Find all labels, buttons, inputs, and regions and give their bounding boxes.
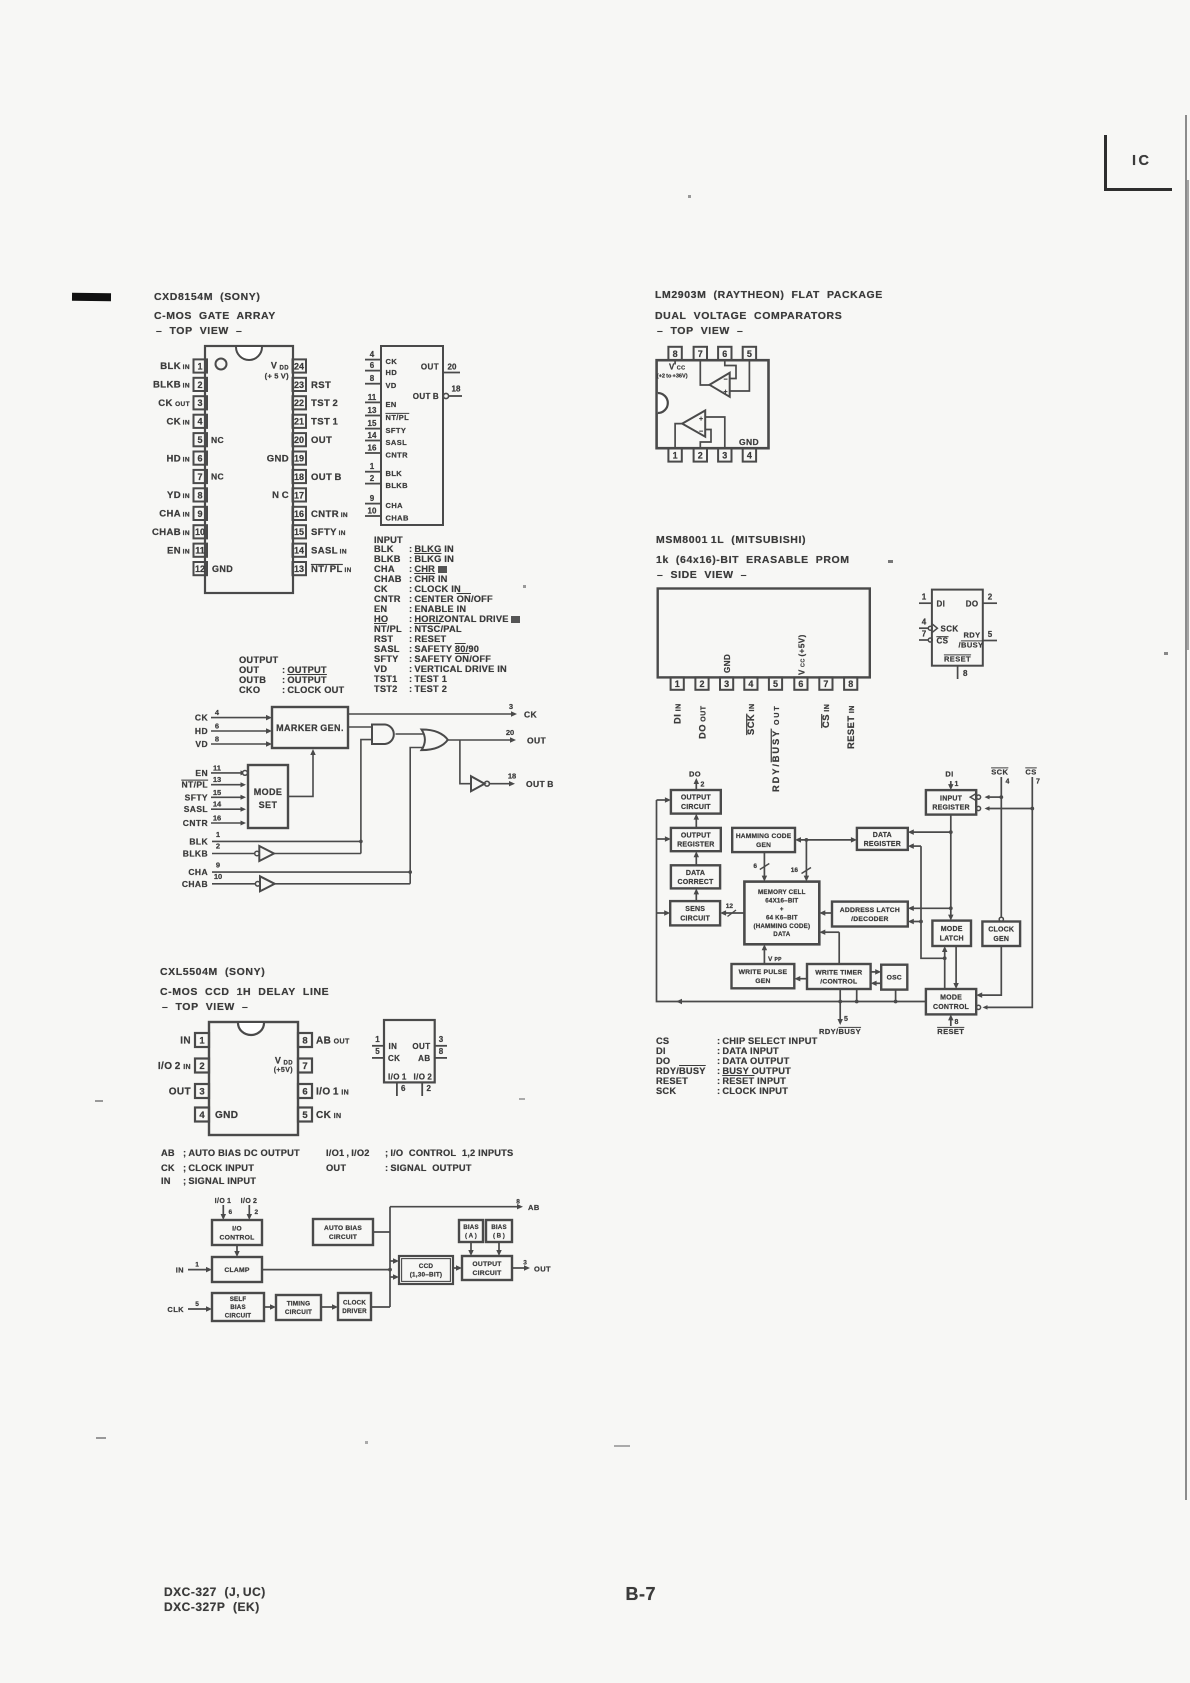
- svg-text:6: 6: [370, 361, 375, 370]
- svg-text:CLOCK: CLOCK: [988, 927, 1014, 934]
- svg-text:13: 13: [294, 564, 304, 574]
- svg-text:OUT: OUT: [311, 435, 332, 446]
- svg-text:EN: EN: [195, 768, 208, 778]
- svg-text:BLKB: BLKB: [183, 849, 208, 859]
- svg-text:4: 4: [922, 618, 927, 627]
- svg-text:SET: SET: [259, 800, 278, 810]
- svg-text:CCD: CCD: [419, 1263, 434, 1270]
- svg-text:(+5V): (+5V): [274, 1067, 293, 1074]
- svg-text:(+2 to +36V): (+2 to +36V): [657, 374, 688, 380]
- svg-text:CNTR: CNTR: [183, 818, 208, 828]
- svg-text:CHA: CHA: [386, 501, 404, 510]
- svg-text:BIAS: BIAS: [491, 1224, 507, 1231]
- svg-text:10: 10: [368, 507, 377, 516]
- svg-text:( A ): ( A ): [465, 1232, 477, 1239]
- svg-text:WRITE PULSE: WRITE PULSE: [739, 969, 788, 976]
- svg-text:CHAB: CHAB: [386, 514, 409, 523]
- svg-text:4: 4: [197, 417, 202, 427]
- svg-text:REGISTER: REGISTER: [677, 842, 714, 849]
- svg-text:/BUSY: /BUSY: [959, 641, 984, 650]
- svg-text:REGISTER: REGISTER: [864, 841, 901, 848]
- svg-text:CIRCUIT: CIRCUIT: [680, 915, 710, 922]
- svg-text:GND: GND: [723, 654, 732, 673]
- svg-text:OUT: OUT: [169, 1087, 191, 1098]
- svg-text:18: 18: [294, 472, 304, 482]
- svg-text:4: 4: [215, 708, 220, 717]
- svg-text:OUTPUT: OUTPUT: [472, 1261, 502, 1268]
- svg-text:SCK: SCK: [991, 768, 1008, 777]
- svg-text:SFTY IN: SFTY IN: [311, 527, 346, 538]
- svg-text:BLKB IN: BLKB IN: [153, 380, 190, 391]
- svg-text:CK: CK: [388, 1054, 400, 1063]
- svg-text:VD: VD: [386, 381, 397, 390]
- svg-text:CLAMP: CLAMP: [224, 1267, 249, 1274]
- svg-text:DO: DO: [966, 599, 979, 608]
- svg-text:1: 1: [675, 679, 680, 689]
- svg-text:(HAMMING CODE): (HAMMING CODE): [753, 923, 810, 930]
- svg-text:4: 4: [199, 1110, 205, 1121]
- svg-text:BLK: BLK: [386, 469, 403, 478]
- svg-text:CIRCUIT: CIRCUIT: [225, 1313, 252, 1320]
- svg-text:V DD: V DD: [275, 1056, 293, 1067]
- svg-text:I/O 2 IN: I/O 2 IN: [158, 1061, 191, 1072]
- svg-text:DATA: DATA: [686, 870, 705, 877]
- svg-text:7: 7: [1036, 779, 1040, 786]
- svg-text:I/O 2: I/O 2: [414, 1073, 433, 1082]
- svg-text:RDY: RDY: [963, 631, 980, 640]
- svg-text:5: 5: [195, 1301, 199, 1308]
- svg-text:2: 2: [699, 679, 704, 689]
- svg-text:CLOCK: CLOCK: [343, 1300, 366, 1307]
- svg-text:2: 2: [701, 782, 705, 789]
- svg-text:+: +: [723, 389, 727, 396]
- svg-text:3: 3: [523, 1260, 527, 1267]
- svg-text:BLK: BLK: [189, 836, 208, 846]
- svg-text:CIRCUIT: CIRCUIT: [473, 1270, 503, 1277]
- svg-text:8: 8: [215, 735, 219, 744]
- svg-text:NC: NC: [211, 472, 224, 482]
- svg-text:BLK IN: BLK IN: [160, 361, 190, 372]
- svg-text:2: 2: [370, 474, 375, 483]
- svg-text:AB OUT: AB OUT: [316, 1036, 350, 1047]
- svg-text:2: 2: [255, 1209, 259, 1216]
- svg-text:1: 1: [922, 593, 927, 602]
- svg-text:8: 8: [197, 490, 202, 500]
- svg-text:AB: AB: [528, 1203, 540, 1212]
- svg-text:NT/ PL IN: NT/ PL IN: [311, 564, 352, 575]
- svg-text:IN: IN: [389, 1042, 398, 1051]
- svg-text:V PP: V PP: [768, 956, 782, 963]
- svg-text:DATA: DATA: [773, 931, 790, 938]
- svg-text:MODE: MODE: [941, 926, 963, 933]
- svg-text:7: 7: [823, 679, 828, 689]
- svg-text:DATA: DATA: [873, 832, 892, 839]
- svg-text:DO: DO: [689, 770, 701, 779]
- svg-text:CHAB IN: CHAB IN: [152, 527, 190, 538]
- svg-text:OUT B: OUT B: [413, 392, 439, 401]
- svg-text:CK: CK: [524, 710, 538, 720]
- svg-text:/CONTROL: /CONTROL: [820, 978, 857, 985]
- svg-text:22: 22: [294, 398, 304, 408]
- svg-text:6: 6: [753, 863, 757, 870]
- svg-text:64 K6–BIT: 64 K6–BIT: [766, 914, 798, 921]
- svg-text:8: 8: [439, 1047, 444, 1056]
- svg-text:MODE: MODE: [940, 995, 962, 1002]
- svg-text:CS: CS: [937, 636, 949, 645]
- svg-text:10: 10: [195, 527, 205, 537]
- svg-text:OUT B: OUT B: [311, 472, 342, 483]
- svg-text:YD IN: YD IN: [167, 490, 190, 501]
- svg-text:7: 7: [922, 629, 927, 638]
- svg-text:6: 6: [197, 454, 202, 464]
- svg-text:2: 2: [216, 842, 220, 851]
- svg-text:17: 17: [294, 490, 304, 500]
- svg-text:14: 14: [368, 431, 377, 440]
- svg-text:TIMING: TIMING: [287, 1301, 311, 1308]
- svg-text:6: 6: [722, 349, 727, 359]
- svg-text:SASL: SASL: [184, 804, 208, 814]
- svg-text:EN IN: EN IN: [167, 545, 190, 556]
- svg-text:14: 14: [294, 546, 304, 556]
- svg-text:8: 8: [516, 1199, 520, 1206]
- svg-text:INPUT: INPUT: [940, 795, 963, 802]
- svg-text:CHA: CHA: [188, 867, 208, 877]
- svg-text:DI: DI: [937, 599, 946, 608]
- svg-text:24: 24: [294, 361, 304, 371]
- svg-text:GND: GND: [215, 1110, 238, 1121]
- svg-text:RESET: RESET: [937, 1027, 964, 1036]
- svg-text:6: 6: [229, 1209, 233, 1216]
- svg-text:5: 5: [844, 1016, 848, 1023]
- svg-text:REGISTER: REGISTER: [932, 804, 969, 811]
- svg-text:1: 1: [197, 361, 202, 371]
- svg-text:+: +: [699, 416, 703, 423]
- svg-text:CK IN: CK IN: [166, 416, 190, 427]
- svg-text:CK: CK: [195, 713, 209, 723]
- svg-text:DO OUT: DO OUT: [697, 705, 707, 739]
- svg-text:AB: AB: [418, 1054, 430, 1063]
- svg-text:4: 4: [1006, 779, 1010, 786]
- svg-text:10: 10: [214, 872, 222, 881]
- svg-text:HD: HD: [195, 726, 208, 736]
- svg-text:18: 18: [508, 772, 516, 781]
- svg-text:9: 9: [216, 861, 220, 870]
- svg-text:CS IN: CS IN: [821, 704, 831, 728]
- svg-text:BIAS: BIAS: [463, 1224, 479, 1231]
- svg-text:18: 18: [452, 385, 461, 394]
- svg-text:CONTROL: CONTROL: [933, 1004, 970, 1011]
- svg-text:13: 13: [368, 406, 377, 415]
- svg-text:1: 1: [195, 1262, 199, 1269]
- svg-text:RDY/BUSY: RDY/BUSY: [819, 1027, 861, 1036]
- svg-text:V DD: V DD: [271, 360, 289, 371]
- svg-text:3: 3: [199, 1087, 204, 1098]
- svg-text:OUT: OUT: [527, 736, 547, 746]
- svg-text:OSC: OSC: [887, 975, 902, 982]
- svg-text:WRITE TIMER: WRITE TIMER: [815, 969, 862, 976]
- svg-text:23: 23: [294, 380, 304, 390]
- svg-text:CORRECT: CORRECT: [677, 879, 714, 886]
- svg-text:5: 5: [197, 435, 202, 445]
- svg-text:CK IN: CK IN: [316, 1110, 341, 1121]
- svg-text:NT/PL: NT/PL: [181, 780, 208, 790]
- svg-text:CIRCUIT: CIRCUIT: [681, 804, 711, 811]
- svg-text:20: 20: [294, 435, 304, 445]
- svg-text:I/O 2: I/O 2: [241, 1198, 258, 1205]
- svg-text:1: 1: [673, 451, 678, 461]
- svg-text:HAMMING CODE: HAMMING CODE: [736, 833, 792, 840]
- svg-text:BLKB: BLKB: [386, 481, 409, 490]
- svg-text:OUT B: OUT B: [526, 779, 554, 789]
- svg-text:7: 7: [698, 349, 703, 359]
- svg-text:2: 2: [698, 451, 703, 461]
- svg-text:15: 15: [368, 419, 377, 428]
- svg-text:CONTROL: CONTROL: [219, 1234, 254, 1241]
- svg-text:8: 8: [963, 669, 968, 678]
- svg-text:CK: CK: [386, 357, 398, 366]
- svg-text:5: 5: [375, 1047, 380, 1056]
- svg-text:19: 19: [294, 454, 304, 464]
- svg-text:5: 5: [988, 630, 993, 639]
- svg-text:SCK: SCK: [941, 624, 959, 633]
- svg-text:RST: RST: [311, 380, 331, 391]
- svg-text:7: 7: [302, 1061, 307, 1072]
- svg-text:11: 11: [195, 546, 205, 556]
- svg-text:TST 1: TST 1: [311, 417, 338, 428]
- svg-text:3: 3: [509, 702, 513, 711]
- svg-text:6: 6: [215, 722, 219, 731]
- svg-text:EN: EN: [386, 400, 397, 409]
- svg-text:20: 20: [506, 728, 514, 737]
- svg-text:ADDRESS LATCH: ADDRESS LATCH: [840, 907, 900, 914]
- svg-text:5: 5: [773, 679, 778, 689]
- svg-text:CIRCUIT: CIRCUIT: [285, 1309, 312, 1316]
- svg-text:3: 3: [724, 679, 729, 689]
- svg-text:SFTY: SFTY: [185, 792, 208, 802]
- svg-text:(+ 5 V): (+ 5 V): [265, 371, 289, 380]
- svg-text:I/O 1: I/O 1: [388, 1073, 407, 1082]
- svg-text:SFTY: SFTY: [386, 426, 407, 435]
- svg-text:LATCH: LATCH: [940, 935, 964, 942]
- svg-text:15: 15: [294, 527, 304, 537]
- svg-text:4: 4: [748, 679, 753, 689]
- svg-text:NT/PL: NT/PL: [386, 413, 410, 422]
- svg-text:I/O: I/O: [232, 1225, 242, 1232]
- svg-text:21: 21: [294, 417, 304, 427]
- svg-text:2: 2: [199, 1061, 204, 1072]
- svg-text:4: 4: [370, 350, 375, 359]
- svg-text:AUTO BIAS: AUTO BIAS: [324, 1225, 362, 1232]
- svg-text:HD IN: HD IN: [166, 453, 190, 464]
- svg-text:V CC: V CC: [669, 363, 686, 372]
- svg-text:3: 3: [722, 451, 727, 461]
- svg-text:1: 1: [370, 462, 375, 471]
- svg-text:N C: N C: [272, 490, 289, 501]
- svg-text:−: −: [723, 377, 727, 384]
- svg-text:16: 16: [213, 814, 221, 823]
- svg-text:11: 11: [213, 763, 221, 772]
- svg-text:GND: GND: [267, 453, 289, 464]
- svg-text:12: 12: [726, 903, 734, 910]
- svg-text:CIRCUIT: CIRCUIT: [329, 1234, 357, 1241]
- svg-text:CHAB: CHAB: [182, 879, 208, 889]
- svg-text:GND: GND: [739, 437, 759, 447]
- svg-text:DI: DI: [945, 770, 953, 779]
- svg-text:SASL: SASL: [386, 438, 408, 447]
- svg-text:1: 1: [199, 1036, 205, 1047]
- svg-text:/DECODER: /DECODER: [851, 916, 888, 923]
- svg-text:8: 8: [370, 374, 375, 383]
- svg-text:8: 8: [673, 349, 678, 359]
- svg-text:16: 16: [368, 444, 377, 453]
- svg-text:IN: IN: [176, 1266, 184, 1275]
- svg-text:DI IN: DI IN: [673, 703, 683, 724]
- svg-text:MODE: MODE: [254, 787, 283, 797]
- svg-text:8: 8: [955, 1019, 959, 1026]
- svg-text:9: 9: [197, 509, 202, 519]
- svg-text:I/O 1: I/O 1: [215, 1198, 232, 1205]
- svg-text:SENS: SENS: [685, 906, 705, 913]
- svg-text:1: 1: [216, 830, 220, 839]
- svg-text:TST 2: TST 2: [311, 398, 338, 409]
- svg-text:SCK IN: SCK IN: [746, 703, 756, 735]
- svg-text:CHA IN: CHA IN: [159, 509, 190, 520]
- svg-text:GEN: GEN: [755, 978, 770, 985]
- svg-text:15: 15: [213, 788, 221, 797]
- svg-text:BIAS: BIAS: [230, 1304, 246, 1311]
- svg-text:1: 1: [955, 781, 959, 788]
- svg-text:MARKER GEN.: MARKER GEN.: [276, 723, 344, 733]
- svg-text:20: 20: [448, 363, 457, 372]
- svg-text:CNTR IN: CNTR IN: [311, 509, 348, 520]
- svg-text:6: 6: [302, 1087, 307, 1098]
- svg-text:11: 11: [368, 393, 377, 402]
- svg-text:2: 2: [197, 380, 202, 390]
- svg-text:3: 3: [439, 1035, 444, 1044]
- svg-text:RESET IN: RESET IN: [846, 705, 856, 749]
- svg-text:DRIVER: DRIVER: [342, 1308, 367, 1315]
- svg-text:12: 12: [195, 564, 205, 574]
- svg-text:6: 6: [401, 1084, 406, 1093]
- svg-text:V CC (+5V): V CC (+5V): [798, 634, 807, 675]
- svg-text:8: 8: [302, 1036, 307, 1047]
- svg-text:2: 2: [427, 1084, 432, 1093]
- svg-text:OUTPUT: OUTPUT: [681, 832, 712, 839]
- svg-text:CK OUT: CK OUT: [158, 398, 190, 409]
- svg-text:CNTR: CNTR: [386, 451, 409, 460]
- svg-text:IN: IN: [180, 1036, 191, 1047]
- svg-text:16: 16: [791, 867, 799, 874]
- svg-text:6: 6: [798, 679, 803, 689]
- svg-text:GEN: GEN: [756, 842, 771, 849]
- svg-text:OUT: OUT: [534, 1265, 551, 1274]
- svg-text:OUT: OUT: [412, 1042, 430, 1051]
- svg-text:−: −: [699, 429, 703, 436]
- svg-text:CS: CS: [1025, 768, 1036, 777]
- svg-text:5: 5: [747, 349, 752, 359]
- svg-text:OUTPUT: OUTPUT: [681, 795, 712, 802]
- svg-text:4: 4: [747, 451, 752, 461]
- svg-text:RESET: RESET: [944, 655, 971, 664]
- svg-text:HD: HD: [386, 368, 398, 377]
- svg-text:(1,30–BIT): (1,30–BIT): [410, 1272, 443, 1279]
- svg-text:13: 13: [213, 775, 221, 784]
- svg-text:( B ): ( B ): [493, 1232, 505, 1239]
- svg-text:NC: NC: [211, 435, 224, 445]
- svg-text:OUT: OUT: [421, 363, 439, 372]
- svg-text:1: 1: [375, 1035, 380, 1044]
- svg-text:VD: VD: [195, 739, 208, 749]
- svg-text:3: 3: [197, 398, 202, 408]
- svg-text:+: +: [780, 906, 784, 913]
- svg-text:CLK: CLK: [167, 1305, 184, 1314]
- svg-text:2: 2: [988, 593, 993, 602]
- svg-text:8: 8: [848, 679, 853, 689]
- svg-text:GND: GND: [212, 564, 233, 574]
- svg-text:I/O 1 IN: I/O 1 IN: [316, 1087, 349, 1098]
- svg-text:5: 5: [302, 1110, 308, 1121]
- svg-text:SELF: SELF: [230, 1296, 247, 1303]
- svg-text:9: 9: [370, 494, 375, 503]
- svg-text:16: 16: [294, 509, 304, 519]
- svg-text:7: 7: [197, 472, 202, 482]
- svg-text:64X16–BIT: 64X16–BIT: [765, 898, 798, 905]
- svg-text:MEMORY CELL: MEMORY CELL: [758, 889, 806, 896]
- svg-text:SASL IN: SASL IN: [311, 546, 347, 557]
- svg-text:GEN: GEN: [993, 936, 1009, 943]
- svg-text:14: 14: [213, 800, 222, 809]
